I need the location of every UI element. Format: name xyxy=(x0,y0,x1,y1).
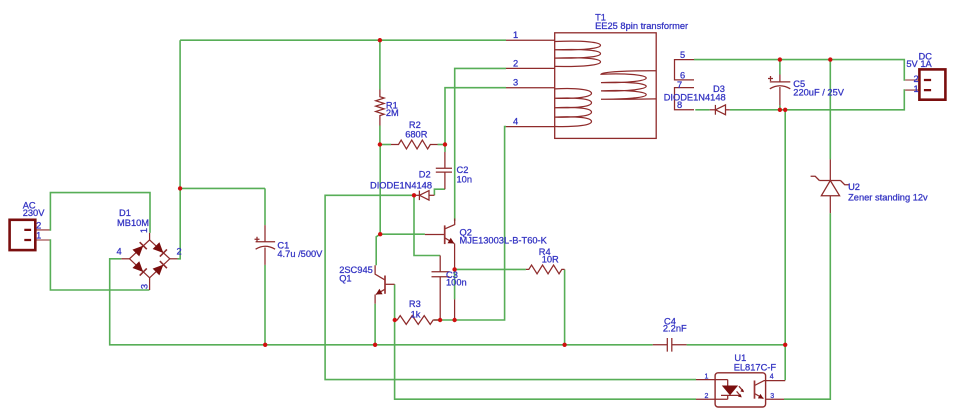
svg-text:2M: 2M xyxy=(386,108,399,118)
svg-text:2: 2 xyxy=(36,221,41,231)
svg-text:C2: C2 xyxy=(457,165,469,175)
svg-text:EL817C-F: EL817C-F xyxy=(734,363,777,373)
svg-text:2: 2 xyxy=(705,393,709,400)
svg-text:D2: D2 xyxy=(419,169,431,179)
svg-text:MB10M: MB10M xyxy=(117,218,149,228)
svg-text:1k: 1k xyxy=(411,310,421,320)
svg-text:EE25 8pin transformer: EE25 8pin transformer xyxy=(595,21,688,31)
svg-text:4: 4 xyxy=(770,374,774,381)
svg-text:1: 1 xyxy=(705,374,709,381)
svg-text:2: 2 xyxy=(914,74,919,84)
svg-text:3: 3 xyxy=(770,393,774,400)
svg-text:220uF / 25V: 220uF / 25V xyxy=(793,87,844,97)
svg-text:DIODE1N4148: DIODE1N4148 xyxy=(370,181,432,191)
svg-text:MJE13003L-B-T60-K: MJE13003L-B-T60-K xyxy=(460,235,548,245)
svg-text:D1: D1 xyxy=(119,208,131,218)
svg-text:U1: U1 xyxy=(734,353,746,363)
svg-text:4: 4 xyxy=(513,117,518,127)
svg-text:1: 1 xyxy=(914,84,919,94)
svg-text:4.7u /500V: 4.7u /500V xyxy=(277,249,323,259)
svg-text:2: 2 xyxy=(177,247,182,257)
svg-text:6: 6 xyxy=(680,71,685,81)
svg-text:R2: R2 xyxy=(409,120,421,130)
svg-text:R3: R3 xyxy=(409,299,421,309)
svg-text:10R: 10R xyxy=(542,254,559,264)
svg-text:1: 1 xyxy=(513,30,518,40)
svg-text:3: 3 xyxy=(139,284,149,289)
svg-text:100n: 100n xyxy=(446,278,467,288)
svg-text:U2: U2 xyxy=(848,182,860,192)
svg-text:680R: 680R xyxy=(405,130,428,140)
svg-text:Zener standing 12v: Zener standing 12v xyxy=(848,192,928,202)
svg-text:Q1: Q1 xyxy=(339,273,351,283)
svg-text:2.2nF: 2.2nF xyxy=(663,324,687,334)
svg-text:7: 7 xyxy=(677,80,682,90)
svg-text:DIODE1N4148: DIODE1N4148 xyxy=(664,92,726,102)
svg-text:3: 3 xyxy=(513,78,518,88)
svg-text:1: 1 xyxy=(139,228,149,233)
svg-text:5: 5 xyxy=(680,50,685,60)
svg-text:4: 4 xyxy=(117,247,122,257)
svg-text:2: 2 xyxy=(513,59,518,69)
svg-text:5V 1A: 5V 1A xyxy=(906,59,932,69)
svg-text:1: 1 xyxy=(36,231,41,241)
svg-text:10n: 10n xyxy=(457,175,473,185)
svg-text:230V: 230V xyxy=(23,208,46,218)
